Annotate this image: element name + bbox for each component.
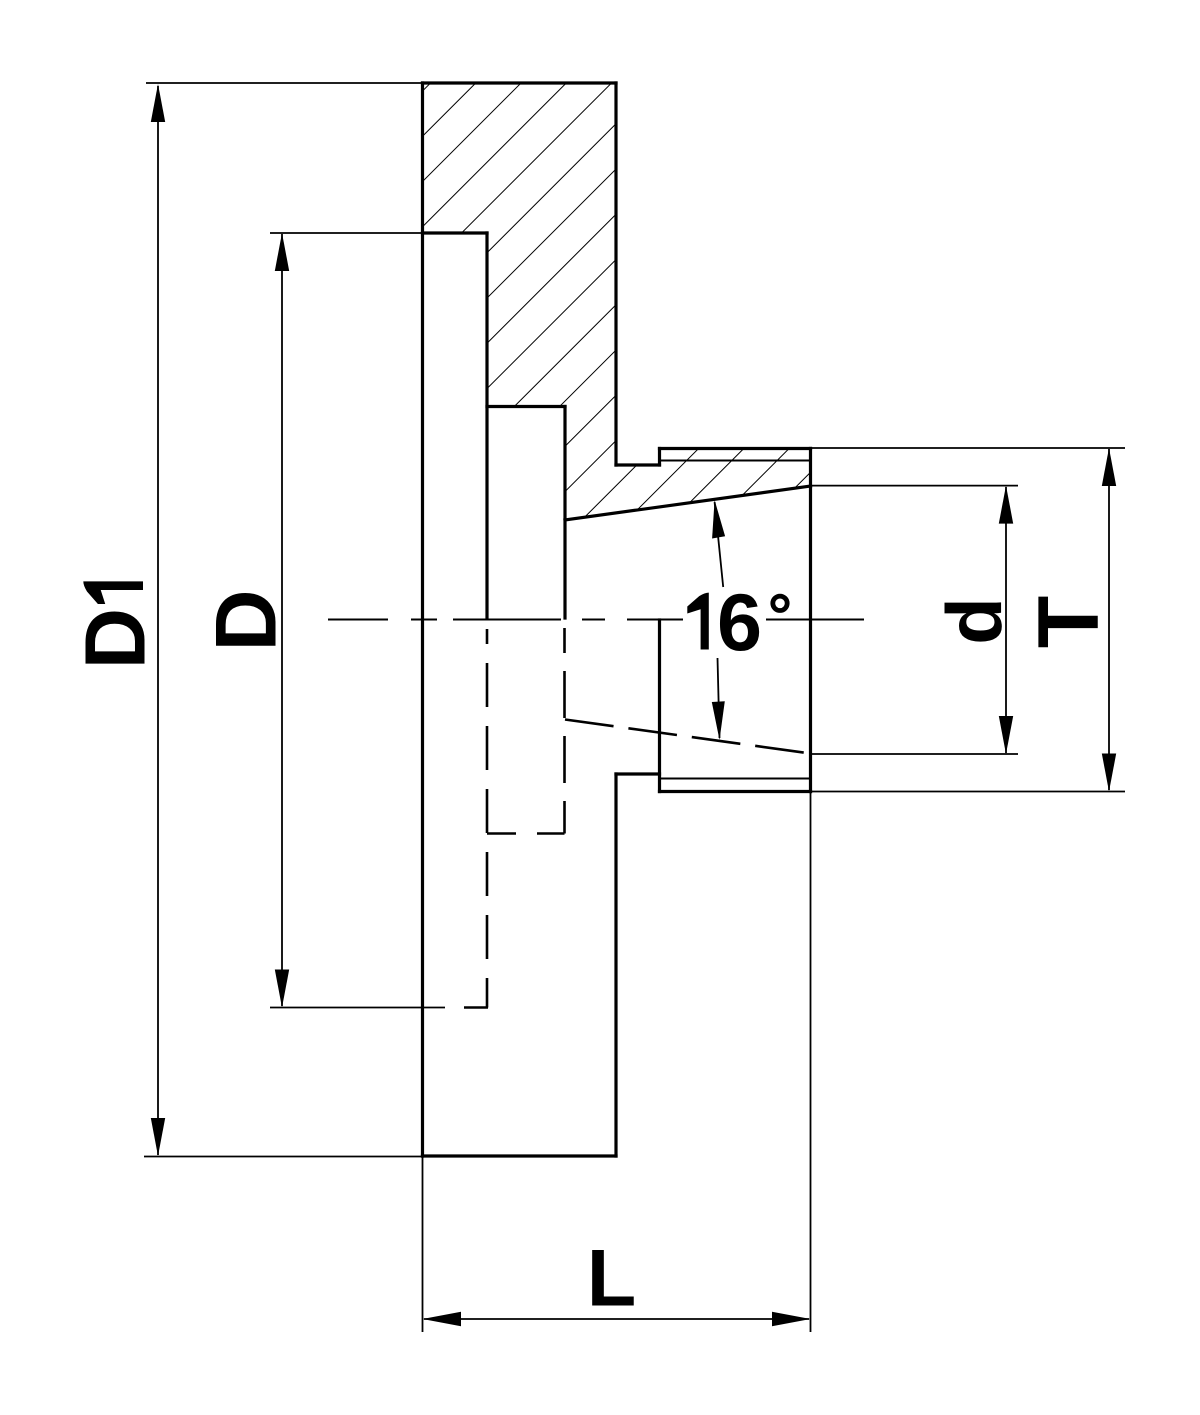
- centerline segment 4: [582, 619, 605, 621]
- dimension line D1: [157, 86, 159, 1155]
- arrowhead d bottom: [999, 716, 1013, 754]
- arrowhead D1 bottom: [151, 1118, 165, 1156]
- svg-text:L: L: [587, 1234, 636, 1324]
- hidden recess bottom y833 dash a: [487, 832, 516, 835]
- extension line D1 top: [146, 82, 423, 84]
- centerline segment 6: [766, 619, 864, 621]
- hidden recess bottom y833 dash b: [537, 832, 565, 835]
- extension line T bottom: [811, 791, 1126, 793]
- relief groove line lower: [616, 772, 660, 775]
- hidden recess edge x487: [486, 629, 489, 1008]
- relief groove bottom upper: [616, 463, 660, 466]
- centerline segment 1: [328, 619, 388, 621]
- hub right edge: [809, 449, 812, 792]
- arrowhead D bottom: [275, 970, 289, 1008]
- dimension line T: [1108, 449, 1110, 790]
- recess D face line: [423, 231, 488, 234]
- arrowhead D top: [275, 233, 289, 271]
- arrowhead T bottom: [1102, 754, 1116, 792]
- arrowhead T top: [1102, 448, 1116, 486]
- arrowhead L right: [772, 1312, 811, 1326]
- taper bore line upper: [565, 486, 811, 520]
- arrowhead angle upper: [712, 500, 725, 539]
- section hatch area (flange + hub cut): [423, 83, 811, 520]
- extension line D bottom: [270, 1007, 445, 1009]
- flange bottom edge: [423, 1154, 617, 1157]
- arrowhead angle lower: [712, 701, 725, 740]
- extension line d bottom: [811, 753, 1019, 755]
- angle leader lower segment: [718, 658, 720, 738]
- flange right edge lower: [614, 774, 617, 1156]
- relief groove side upper: [658, 449, 661, 466]
- recess step vertical 2: [563, 407, 566, 619]
- extension line D1 bottom: [144, 1156, 423, 1158]
- arrowhead D1 top: [151, 84, 165, 122]
- extension line L right: [810, 792, 812, 1333]
- centerline segment 5: [627, 619, 683, 621]
- flange right edge upper: [614, 83, 617, 465]
- hub inner edge line lower: [660, 778, 811, 780]
- recess step horizontal 2: [487, 405, 565, 408]
- extension line T top: [811, 447, 1126, 449]
- hub bottom edge: [660, 790, 811, 793]
- arrowhead L left: [423, 1312, 462, 1326]
- angle leader upper segment: [715, 502, 724, 587]
- centerline segment 2: [411, 619, 437, 621]
- extension line L left: [422, 1156, 424, 1332]
- hub inner edge line upper: [660, 460, 811, 462]
- flange left edge: [421, 83, 424, 1156]
- arrowhead d top: [999, 486, 1013, 524]
- centerline segment 3: [453, 619, 561, 621]
- svg-text:d: d: [930, 597, 1018, 645]
- hidden recess edge x564: [563, 628, 566, 834]
- svg-text:6: 6: [717, 578, 762, 668]
- dimension line D: [281, 234, 283, 1006]
- flange top edge: [423, 81, 617, 84]
- extension line D top: [270, 232, 424, 234]
- svg-text:D: D: [199, 589, 295, 651]
- dimension line d: [1005, 487, 1007, 753]
- hub top edge: [660, 447, 811, 450]
- extension line d top: [811, 485, 1019, 487]
- svg-text:T: T: [1021, 596, 1117, 649]
- dimension line L: [424, 1318, 809, 1320]
- hub left edge lower: [658, 620, 661, 792]
- recess step vertical 1: [485, 233, 488, 618]
- taper bore hidden line lower: [565, 720, 811, 754]
- hidden recess bottom y1007 dash: [464, 1006, 488, 1009]
- svg-text:D: D: [69, 608, 164, 669]
